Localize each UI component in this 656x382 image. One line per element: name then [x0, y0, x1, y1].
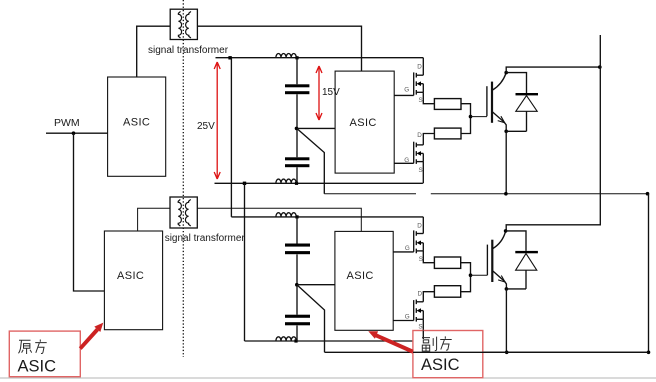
inductor L3: [276, 213, 296, 217]
slide bottom border line: [0, 377, 656, 379]
resistor R4: [434, 286, 460, 298]
junction emitter return / right link (lower): [647, 351, 651, 355]
svg-text:25V: 25V: [197, 121, 215, 132]
wire Q4 source to bottom rail: [422, 319, 424, 341]
wire Q4 source visible over callout: [422, 331, 424, 340]
ASIC U1 primary upper: [108, 77, 166, 176]
ASIC U2 primary lower: [104, 231, 162, 330]
wire Q3 source to R3: [423, 251, 434, 263]
junction Z2 collector node: [504, 229, 508, 233]
wire mid node diagonal to emitter return (lower): [297, 285, 325, 352]
junction gate node (lower): [469, 273, 473, 277]
wire emitter return (upper, left segment): [324, 193, 416, 195]
junction gate node (upper): [469, 115, 473, 119]
wire Q4 drain to R4: [423, 292, 434, 302]
junction Z1 emitter node: [504, 130, 508, 134]
svg-text:G: G: [405, 245, 410, 252]
svg-text:D: D: [417, 223, 422, 230]
wire Q1 source to R1: [423, 92, 434, 103]
wire ASIC U2 to transformer T2: [138, 208, 170, 231]
capacitor C1: [285, 84, 309, 94]
wire Z1 emitter down: [505, 131, 507, 193]
junction cap midpoint node (lower): [295, 283, 299, 287]
wire emitter return (upper, right segment): [431, 193, 648, 195]
svg-text:S: S: [419, 256, 423, 263]
wire left supply leg down to lower circuit top rail: [230, 58, 232, 217]
wire Z2 emitter down: [505, 289, 507, 352]
junction Z1 collector node: [504, 71, 508, 75]
svg-text:signal transformer: signal transformer: [148, 45, 229, 56]
svg-text:G: G: [405, 314, 410, 321]
wire emitter return (lower): [325, 351, 649, 353]
svg-text:PWM: PWM: [54, 117, 80, 129]
wire Z1 collector to phase bus: [506, 67, 600, 73]
25V arrow: [214, 62, 220, 179]
wire Q1 drain to top rail: [422, 58, 424, 75]
diode D1: [516, 93, 539, 131]
wire mid node diagonal to emitter return: [297, 129, 324, 194]
ASIC U4 secondary lower: [335, 231, 393, 330]
inductor L2 (upper bottom rail): [276, 179, 296, 183]
wire transformer T1 to secondary ASIC U3: [197, 26, 361, 71]
junction emitter return / Z1: [504, 192, 508, 196]
resistor R2: [434, 128, 461, 139]
transistor Q2 NMOS low-side: [414, 142, 424, 164]
wire R3/R4 join: [461, 263, 471, 292]
wire top rail (lower circuit): [231, 216, 423, 218]
wire collector to diode D1: [506, 73, 526, 93]
svg-text:ASIC: ASIC: [350, 117, 377, 129]
wire collector bus down to lower IGBT: [506, 35, 600, 231]
resistor R1: [434, 99, 461, 110]
junction emitter return / Z2: [505, 351, 509, 355]
label 原方 (primary side): [19, 340, 47, 355]
wire right emitter link vertical: [648, 194, 650, 353]
IGBT Z2: [487, 232, 506, 289]
svg-text:ASIC: ASIC: [421, 356, 460, 374]
svg-text:ASIC: ASIC: [347, 270, 374, 282]
junction L1 / cap leg top: [295, 56, 298, 59]
wire capacitor leg (upper): [296, 58, 298, 184]
junction L3 / cap leg: [295, 215, 298, 218]
svg-text:G: G: [404, 157, 409, 164]
wire emitter return redrawn over callout: [413, 351, 649, 353]
wire PWM node to lower primary ASIC: [74, 133, 105, 291]
junction L4 / cap leg: [294, 339, 297, 342]
wire mid node to ASIC U3: [297, 127, 335, 129]
svg-text:S: S: [419, 167, 423, 174]
svg-text:D: D: [417, 64, 422, 71]
svg-text:signal transformer: signal transformer: [165, 233, 246, 244]
ASIC U3 secondary upper: [335, 71, 394, 173]
junction phase bus: [598, 65, 602, 69]
diode D2: [515, 251, 538, 289]
junction emitter return / right link: [646, 192, 650, 196]
signal transformer T2: [170, 197, 197, 228]
svg-text:ASIC: ASIC: [117, 270, 144, 282]
capacitor C4: [285, 315, 310, 326]
transistor Q1 NMOS high-side: [414, 72, 424, 95]
wire right supply leg down to lower circuit bottom rail: [244, 183, 246, 341]
svg-text:ASIC: ASIC: [18, 358, 57, 376]
wire gate drive upper pin G (lower circuit): [393, 251, 414, 253]
transistor Q3 NMOS high-side (lower): [414, 230, 424, 253]
wire bottom rail (lower circuit): [245, 340, 424, 342]
svg-text:15V: 15V: [322, 87, 340, 98]
wire gate node to IGBT Z1 gate: [471, 116, 488, 118]
capacitor C3: [285, 244, 310, 255]
IGBT Z1: [487, 74, 506, 131]
wire Q2 drain to R2: [423, 134, 434, 145]
arrow to primary ASIC: [79, 323, 104, 350]
callout box primary ASIC: [9, 331, 80, 377]
junction PWM node: [72, 131, 76, 135]
wire bottom 0V rail (upper): [215, 182, 423, 184]
15V arrow: [316, 66, 322, 120]
inductor L4: [276, 337, 296, 341]
svg-text:D: D: [417, 132, 422, 139]
svg-text:ASIC: ASIC: [123, 117, 150, 129]
wire ASIC U1 to transformer T1: [137, 26, 171, 77]
wire transformer T2 to secondary ASIC U4: [197, 208, 361, 231]
junction Z2 emitter node: [505, 287, 509, 291]
junction L2 / cap leg bottom: [295, 182, 298, 185]
isolation barrier dotted line: [182, 0, 184, 357]
wire gate drive lower pin G: [394, 162, 414, 164]
capacitor C2: [285, 157, 309, 167]
signal transformer T1: [170, 9, 197, 39]
label 副方 (secondary side): [422, 336, 452, 351]
svg-text:S: S: [419, 97, 423, 104]
wire collector to diode D2: [506, 231, 526, 251]
callout box secondary ASIC: [413, 331, 483, 378]
wire gate node to IGBT Z2 gate: [471, 274, 488, 276]
resistor R3: [434, 257, 460, 268]
wire emitter node to diode D1 anode: [506, 130, 526, 132]
junction cap midpoint node (upper): [295, 127, 299, 131]
wire R1/R2 join: [461, 104, 471, 134]
wire emitter node to diode D2 anode: [506, 288, 526, 290]
wire top 25V rail (upper): [216, 57, 424, 59]
wire gate drive upper pin G: [394, 94, 414, 96]
wire mid node to ASIC U4: [297, 284, 335, 286]
wire Q3 drain to top rail: [422, 217, 424, 234]
svg-text:D: D: [418, 291, 423, 298]
svg-text:S: S: [418, 324, 422, 331]
wire gate drive lower pin G (lower circuit): [393, 320, 414, 322]
arrow to secondary ASIC: [368, 331, 413, 353]
wire Q2 source to bottom rail: [422, 162, 424, 184]
wire PWM input: [46, 132, 108, 134]
junction bottom rail / drop leg: [243, 182, 246, 185]
transistor Q4 NMOS low-side (lower): [414, 300, 424, 322]
junction top rail / left leg: [228, 56, 231, 59]
wire capacitor leg (lower): [296, 217, 298, 341]
svg-text:G: G: [404, 87, 409, 94]
inductor L1 (upper top rail): [276, 54, 296, 58]
